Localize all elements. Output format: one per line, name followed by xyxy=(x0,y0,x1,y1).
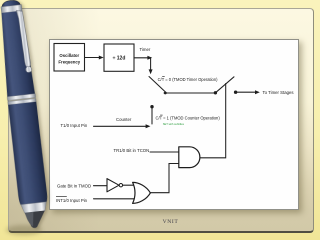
wire divider to switch corner xyxy=(134,57,148,59)
output contact dot xyxy=(234,91,237,94)
counter contact dot xyxy=(150,105,153,108)
NOT bubble xyxy=(119,184,122,187)
switch pole wire xyxy=(164,92,215,94)
arrowhead timer contact xyxy=(149,69,153,74)
counter input wire xyxy=(94,125,147,127)
TR bit wire xyxy=(150,151,179,153)
overline C/T=0 xyxy=(162,76,165,78)
arrowhead to timer stages xyxy=(255,90,260,94)
arrowhead at counter corner xyxy=(146,124,151,128)
clip xyxy=(16,10,31,68)
pole dot xyxy=(214,91,217,94)
AND gate xyxy=(179,147,200,168)
switch blade C/T=0 xyxy=(149,77,167,94)
chrome section xyxy=(21,202,48,214)
oscillator box xyxy=(54,44,85,72)
control wire from AND gate xyxy=(200,84,226,158)
crown chrome ring xyxy=(1,5,22,13)
int pin wire xyxy=(94,198,137,200)
switch blade C/T control xyxy=(215,77,234,93)
wire osc to divider xyxy=(85,57,100,59)
arrowhead into divider xyxy=(99,56,104,60)
arrowhead at timer corner xyxy=(147,56,152,60)
divide-by-12 box xyxy=(104,44,134,71)
cap crown xyxy=(1,0,21,9)
pen shadow xyxy=(6,225,42,235)
NOT gate xyxy=(107,179,119,192)
overline INT1 xyxy=(56,195,67,197)
cap body xyxy=(0,10,35,97)
AND lower input wire xyxy=(150,164,179,193)
OR gate xyxy=(133,182,151,203)
barrel xyxy=(8,102,48,206)
not to or wire xyxy=(123,184,135,186)
junction dot pole left xyxy=(164,92,167,95)
nib xyxy=(25,211,47,229)
gate bit wire xyxy=(94,185,108,187)
double chrome rings xyxy=(7,94,35,101)
overline C/T=1 xyxy=(160,114,163,116)
to timer stages wire xyxy=(236,91,255,93)
